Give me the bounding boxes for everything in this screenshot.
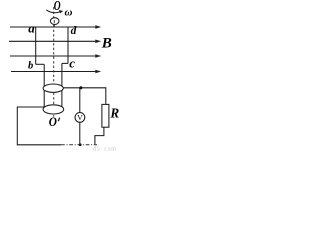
svg-text:R: R xyxy=(109,106,119,121)
field line B1 xyxy=(10,25,101,29)
coil side ab xyxy=(35,27,37,64)
axis OO' dashed xyxy=(53,7,55,117)
wire V branch upper xyxy=(79,88,81,113)
svg-text:V: V xyxy=(77,113,83,122)
junction dot xyxy=(79,86,82,89)
axis dash inside pivot xyxy=(53,20,55,23)
coil lead left xyxy=(43,64,45,107)
voltmeter V xyxy=(75,113,85,123)
wire R bottom jog xyxy=(95,127,104,144)
resistor R box xyxy=(102,104,109,127)
svg-text:a: a xyxy=(28,20,35,35)
pivot stem xyxy=(53,25,55,28)
slip ring 1 xyxy=(43,84,63,92)
bottom junction dot xyxy=(79,143,82,146)
wire brush2 to left xyxy=(17,107,61,145)
field line B2 xyxy=(9,40,101,44)
wire brush1 to circuit xyxy=(63,88,106,105)
svg-text:O: O xyxy=(54,0,61,14)
svg-text:ω: ω xyxy=(65,6,73,18)
svg-text:d: d xyxy=(71,25,77,37)
coil corner b wire xyxy=(36,63,45,65)
svg-text:c: c xyxy=(69,56,75,71)
svg-text:B: B xyxy=(101,35,112,51)
svg-text:b: b xyxy=(28,60,33,71)
coil side dc xyxy=(67,27,69,63)
wire V branch lower xyxy=(79,122,81,145)
field line B4 xyxy=(11,70,101,74)
slip ring 2 xyxy=(43,105,64,114)
bottom dash-dot wire xyxy=(61,144,97,146)
coil corner c wire xyxy=(62,62,68,64)
pivot bearing circle xyxy=(50,18,59,25)
svg-text:d5 com: d5 com xyxy=(93,147,117,152)
field line B3 xyxy=(10,54,101,58)
label O xyxy=(54,0,61,14)
rotation arrow omega xyxy=(46,10,61,13)
label O prime xyxy=(49,114,57,129)
svg-text:O: O xyxy=(49,114,57,129)
coil lead right xyxy=(61,63,63,107)
